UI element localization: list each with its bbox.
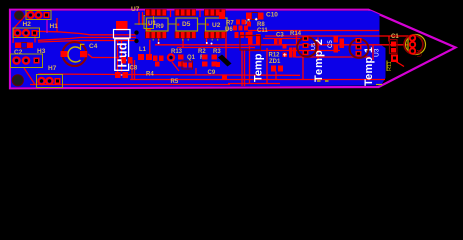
svg-text:H1: H1 — [50, 23, 59, 30]
svg-text:L1: L1 — [139, 47, 147, 53]
svg-text:H2: H2 — [23, 21, 32, 28]
svg-text:Q1: Q1 — [187, 55, 196, 61]
svg-text:U3: U3 — [374, 48, 381, 57]
svg-text:U4: U4 — [418, 49, 424, 57]
svg-text:H7: H7 — [48, 65, 57, 72]
svg-text:C2: C2 — [14, 49, 23, 56]
svg-text:Temp: Temp — [253, 53, 265, 82]
svg-text:R11: R11 — [387, 61, 393, 71]
svg-text:Hud: Hud — [116, 43, 130, 68]
svg-text:ZD1: ZD1 — [269, 59, 281, 65]
svg-text:C10: C10 — [266, 12, 278, 19]
svg-text:R3: R3 — [213, 49, 221, 55]
svg-text:R5: R5 — [171, 79, 179, 85]
svg-text:C5: C5 — [328, 40, 334, 48]
svg-text:R4: R4 — [146, 71, 154, 77]
svg-text:C8: C8 — [130, 66, 138, 72]
svg-text:U7: U7 — [131, 6, 140, 13]
svg-text:U5: U5 — [311, 43, 317, 50]
svg-text:U2: U2 — [212, 22, 221, 29]
svg-text:C3: C3 — [276, 33, 284, 39]
svg-text:C9: C9 — [208, 70, 216, 76]
svg-text:R9: R9 — [156, 24, 164, 30]
svg-text:C11: C11 — [257, 28, 268, 34]
svg-text:U6: U6 — [225, 27, 233, 33]
svg-text:C4: C4 — [89, 43, 98, 50]
svg-text:R12: R12 — [269, 52, 281, 58]
svg-text:D5: D5 — [182, 21, 191, 28]
svg-text:R14: R14 — [290, 31, 302, 37]
